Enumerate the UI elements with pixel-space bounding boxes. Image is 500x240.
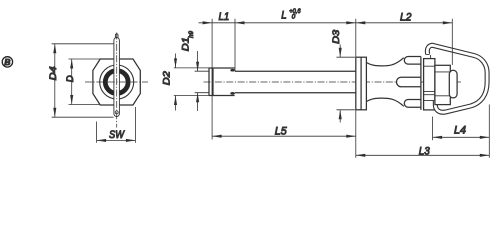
dimension D4 arrows — [53, 44, 56, 117]
collar outline — [356, 57, 367, 110]
dimension SW line — [97, 139, 136, 141]
svg-text:L: L — [281, 9, 286, 21]
collar inner line — [360, 57, 362, 110]
dimension L line — [235, 22, 356, 24]
dimension D3 arrows — [339, 48, 342, 120]
svg-text:D3: D3 — [331, 29, 342, 44]
stirrup bar edge-on — [114, 38, 120, 117]
dimension D1 extension lines — [195, 71, 209, 93]
dimension D line — [71, 59, 73, 105]
dimension D4 line — [54, 44, 56, 117]
svg-text:D4: D4 — [48, 66, 59, 80]
grip rib 3 — [404, 100, 421, 108]
front view dark ring — [105, 71, 128, 94]
dimension D arrows — [70, 59, 73, 105]
dimension L1 arrows — [203, 21, 213, 24]
stirrup wire outer stroke — [427, 45, 487, 112]
dimension L3 arrows — [356, 154, 490, 157]
pivot wrap capsule — [449, 70, 457, 98]
pivot housing slot lines — [435, 72, 450, 96]
dimension D3 extension lines — [337, 57, 355, 110]
svg-text:B: B — [4, 57, 10, 67]
svg-text:D: D — [65, 75, 76, 82]
front view outer circle — [100, 65, 134, 99]
svg-text:0: 0 — [292, 14, 296, 21]
front view octagon body — [93, 59, 140, 105]
stirrup wire end face — [426, 54, 430, 58]
svg-text:L1: L1 — [219, 11, 230, 23]
handle cap — [424, 59, 435, 110]
view label B circle — [2, 57, 12, 67]
dimension L4 line — [433, 136, 490, 138]
pin tip step blobs — [230, 69, 235, 72]
dimension D3 lines — [339, 45, 341, 123]
stirrup bar wire end dot — [115, 111, 118, 114]
dimension D1 arrows — [196, 62, 199, 103]
pin shaft lines — [235, 71, 356, 93]
grip end face lines — [421, 57, 424, 110]
dimension D2 lines — [175, 54, 177, 111]
front view horizontal centerline — [85, 81, 148, 83]
dimension L4 arrows — [433, 136, 490, 139]
pivot housing — [435, 65, 450, 104]
svg-text:L3: L3 — [419, 146, 431, 158]
dimension D2 arrows — [174, 58, 177, 105]
side view horizontal centerline — [204, 81, 462, 83]
dimension D1 lines — [197, 51, 199, 111]
svg-text:D1: D1 — [180, 37, 191, 51]
dimension chain extension lines top — [212, 19, 489, 158]
dimension SW extension lines — [97, 107, 136, 143]
svg-text:D2: D2 — [161, 70, 172, 85]
svg-text:L2: L2 — [400, 11, 411, 23]
grip rib 1 — [404, 57, 421, 65]
dimension SW arrows — [97, 139, 136, 142]
front view vertical centerline — [116, 33, 118, 128]
pin tip outline — [209, 68, 235, 96]
stirrup wire inner white — [427, 45, 487, 112]
grip rib 2 — [397, 77, 421, 87]
svg-text:h9: h9 — [188, 31, 195, 38]
dimension D2 extension lines — [174, 68, 209, 96]
svg-text:SW: SW — [109, 129, 125, 141]
dimension D extension lines — [69, 59, 101, 105]
dimension L5 line — [212, 135, 356, 137]
dimension L3 line — [356, 154, 490, 156]
grip body profile — [366, 58, 403, 107]
dimension L2 arrows — [356, 21, 453, 24]
dimension L1 line — [199, 22, 236, 24]
dimension L5 arrows — [212, 135, 356, 138]
dimension L arrows — [235, 21, 356, 24]
svg-text:L5: L5 — [275, 125, 288, 137]
dimension D4 extension lines — [52, 44, 114, 117]
stirrup bar wire end nub — [115, 34, 118, 40]
pin tip chamfer line — [212, 68, 214, 96]
svg-text:L4: L4 — [454, 125, 466, 137]
handle cap detail lines — [424, 66, 435, 100]
dimension L2 line — [356, 22, 453, 24]
